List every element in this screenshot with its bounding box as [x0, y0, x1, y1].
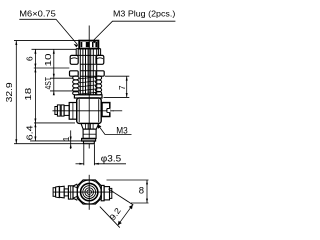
- svg-text:18: 18: [24, 87, 33, 101]
- dimension 6.4: [26, 123, 37, 141]
- valve body: [77, 98, 102, 123]
- dimension 10: [44, 49, 55, 78]
- svg-text:6: 6: [25, 56, 34, 61]
- threaded column: [80, 49, 96, 95]
- extension line 32.9 bottom: [14, 143, 83, 145]
- svg-text:φ3.5: φ3.5: [101, 153, 121, 164]
- hex nut upper: [70, 55, 104, 64]
- bottom view right port: [101, 185, 112, 200]
- svg-text:M3 Plug (2pcs.): M3 Plug (2pcs.): [113, 9, 175, 19]
- dimension 32.9: [5, 41, 17, 144]
- bottom boss with M3 plug: [81, 123, 99, 129]
- extension line 6/18 junction: [34, 67, 70, 69]
- dimension 18: [24, 68, 36, 123]
- svg-text:1: 1: [62, 136, 71, 141]
- svg-text:M6×0.75: M6×0.75: [19, 9, 56, 19]
- right port fitting upper view: [102, 103, 110, 117]
- extension line 6.4 bottom: [30, 140, 82, 142]
- stem groove: [82, 138, 96, 141]
- dimension 7 right: [104, 76, 130, 97]
- svg-text:6.4: 6.4: [26, 125, 35, 141]
- dimension 4ST: [44, 77, 55, 95]
- bottom view vertical centerline: [88, 175, 90, 210]
- dimension 8: [107, 180, 149, 203]
- spring: [73, 76, 102, 95]
- bottom view left joint: [73, 184, 77, 200]
- bottom view octagon body: [77, 180, 101, 204]
- extension line knob bottom: [32, 48, 77, 50]
- svg-text:10: 10: [44, 53, 53, 67]
- dimension 6: [25, 49, 36, 68]
- extension line 4ST bottom: [50, 90, 81, 92]
- label M3 side port: [98, 124, 132, 135]
- extension line body bottom: [34, 122, 75, 124]
- leader M6x0.75: [19, 19, 78, 47]
- horizontal centerline ports: [53, 110, 114, 112]
- dimension 1: [62, 130, 72, 149]
- knurled skirt edges: [76, 49, 100, 56]
- left barb fitting upper view: [55, 103, 77, 120]
- extension line 10 bottom: [50, 77, 73, 79]
- svg-text:7: 7: [118, 85, 127, 90]
- stem neck: [83, 129, 96, 138]
- label M3 Plug (2pcs.): [113, 9, 175, 19]
- extension line 32.9 top: [14, 40, 80, 42]
- dimension phi3.5: [76, 153, 127, 165]
- bottom view left barb fitting: [53, 186, 73, 199]
- phi3.5 extension lines: [84, 144, 95, 165]
- knurled knob: [79, 41, 98, 49]
- body top flange: [74, 95, 102, 98]
- hex lock nut lower: [70, 71, 105, 76]
- label M6x0.75: [19, 9, 56, 19]
- svg-text:M3: M3: [116, 125, 128, 135]
- bottom view horizontal centerline: [53, 191, 114, 193]
- stem tip: [84, 141, 95, 144]
- svg-text:4ST: 4ST: [44, 77, 53, 90]
- leader M3 Plug: [93, 21, 176, 43]
- svg-text:32.9: 32.9: [5, 82, 14, 103]
- vertical centerline upper view: [88, 26, 90, 149]
- bottom view circles: [77, 180, 101, 204]
- dimension 9.2 diagonal: [100, 189, 134, 228]
- svg-text:8: 8: [139, 186, 144, 197]
